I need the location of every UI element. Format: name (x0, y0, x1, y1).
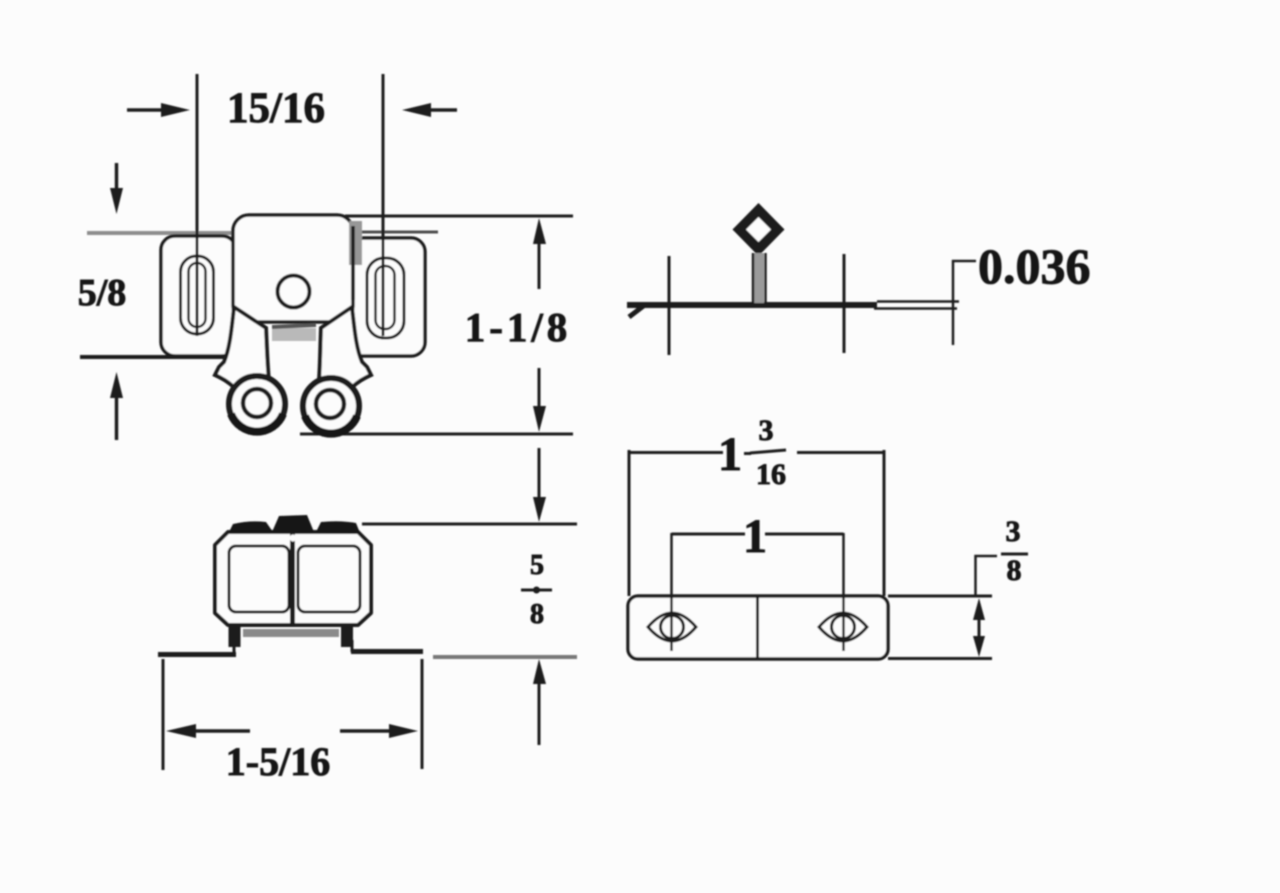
right roller hub (316, 390, 344, 418)
ext line bottom-left (bottom of wings) (80, 355, 230, 359)
right flange (351, 649, 423, 654)
dim 5/8 side upper arrow (538, 448, 541, 502)
roller edge strip (243, 629, 339, 637)
right wing slot outer (367, 258, 404, 338)
prong stem edges (752, 253, 755, 303)
ext 3/8 top (888, 595, 992, 598)
dim 1-1/8 top arrow (538, 240, 541, 289)
dim 5/8 side lower arrow (538, 679, 541, 745)
dim 1-3/16 line right (797, 451, 884, 454)
catch body (233, 215, 353, 322)
dim 1 line left (672, 533, 746, 536)
svg-text:15/16: 15/16 (227, 85, 325, 132)
ext 3/8 bottom (888, 657, 992, 660)
left slot circle (661, 616, 684, 639)
ext line top-left (gray, top of wings) (87, 231, 232, 235)
right slot eye (819, 613, 867, 641)
svg-text:8: 8 (530, 599, 544, 630)
left roller bottom heavy arc (231, 414, 283, 432)
dim 15/16 left arrow (127, 108, 165, 112)
plate edge double line lower (874, 307, 957, 310)
ext line top-right (top of wings) (357, 231, 438, 234)
plate edge main line (627, 302, 877, 308)
left slot eye (648, 613, 696, 641)
dim 1 line right (765, 533, 844, 536)
body right edge over band (351, 226, 355, 300)
dim 1-3/16 line left (629, 451, 723, 454)
right slot circle (832, 616, 855, 639)
dim 5/8 bottom arrow (115, 396, 119, 440)
strike plate (628, 596, 888, 659)
svg-text:16: 16 (756, 458, 786, 491)
right roller (303, 378, 359, 434)
housing outline (215, 532, 371, 625)
left step (233, 640, 236, 655)
right wing slot inner (376, 266, 395, 329)
left wing slot inner (189, 263, 206, 327)
plate edge double line upper (877, 300, 959, 303)
bottom leg left (229, 625, 241, 647)
left end tick (629, 304, 646, 317)
right roller bottom heavy arc (305, 416, 357, 434)
svg-text:3: 3 (759, 414, 774, 447)
dim 1 ext left / slot centerline (670, 533, 673, 651)
right wing plate (348, 238, 425, 356)
dim 5/8 top arrow (115, 163, 119, 190)
screw hole (278, 276, 310, 308)
svg-text:1: 1 (718, 428, 742, 481)
spring strip between arms (272, 328, 316, 341)
top bump left (229, 521, 273, 532)
diamond prong outer (733, 203, 785, 256)
svg-text:0.036: 0.036 (978, 238, 1091, 294)
left wing plate (161, 236, 236, 356)
svg-text:3: 3 (1006, 515, 1021, 548)
right compartment (298, 546, 360, 612)
dim 1-5/16 right arrow (340, 729, 392, 733)
dim 1-5/16 left arrow (192, 729, 250, 733)
top bump right (316, 521, 360, 533)
left roller hub (243, 389, 271, 417)
right step (351, 640, 354, 652)
ext line flange level (gray) (433, 655, 577, 659)
shading band right of body (349, 221, 362, 265)
3/8 bracket (976, 556, 998, 596)
dim 1 ext right / slot centerline (842, 533, 845, 651)
svg-text:1-1/8: 1-1/8 (465, 304, 572, 350)
diamond prong hole (746, 217, 771, 242)
dim 1-5/16 ext left (162, 659, 165, 770)
svg-text:1: 1 (743, 510, 767, 563)
bottom leg right (341, 625, 353, 647)
screw centerline left (668, 256, 671, 355)
white dot on divider (290, 535, 297, 542)
dim 1-3/16 ext left (628, 450, 631, 596)
left roller (229, 376, 285, 432)
dim 3/8 vertical with arrows (978, 612, 981, 644)
right roller arm (318, 307, 371, 392)
thickness bracket (953, 261, 976, 345)
dim 1-5/16 ext right (421, 659, 424, 769)
left compartment (229, 546, 289, 612)
top bump center (272, 515, 314, 532)
left roller arm (215, 307, 270, 392)
dim 1-1/8 bottom arrow (538, 368, 541, 412)
svg-text:1-5/16: 1-5/16 (226, 739, 330, 784)
centerline left slot (196, 74, 199, 336)
plate centerline (756, 596, 759, 659)
prong stem fill (754, 253, 764, 303)
centerline right slot (382, 74, 385, 336)
ext line right of body top (345, 215, 573, 218)
dim 15/16 right arrow (429, 108, 457, 112)
svg-text:8: 8 (1007, 554, 1022, 587)
divider (290, 534, 295, 623)
screw centerline right (843, 254, 846, 353)
svg-text:5: 5 (530, 550, 544, 581)
ext line bottom of rollers (300, 433, 573, 436)
ext line top of side view (362, 523, 577, 526)
left wing slot outer (181, 256, 214, 334)
dim 1-3/16 ext right (883, 450, 886, 596)
left flange (158, 652, 236, 657)
svg-text:5/8: 5/8 (78, 272, 127, 314)
